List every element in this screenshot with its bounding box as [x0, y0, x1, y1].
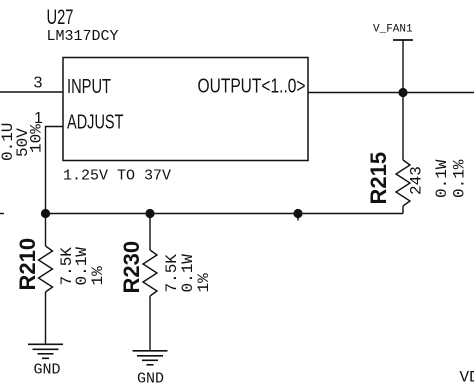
svg-text:VDD: VDD: [460, 369, 474, 387]
svg-text:243: 243: [408, 166, 426, 195]
svg-text:LM317DCY: LM317DCY: [47, 28, 119, 45]
wire: ADJUST pin 1 down to bottom rail: [46, 127, 64, 214]
svg-text:GND: GND: [137, 371, 164, 387]
svg-text:R210: R210: [15, 238, 40, 291]
svg-text:V_FAN1: V_FAN1: [373, 24, 413, 36]
svg-text:ADJUST: ADJUST: [67, 112, 124, 134]
svg-text:GND: GND: [33, 362, 60, 379]
svg-text:R230: R230: [119, 241, 144, 294]
junction: rail mid with stub: [293, 209, 302, 221]
wire: OUTPUT net to right edge: [308, 92, 474, 94]
wire: bottom ADJUST rail: [46, 213, 404, 215]
junction: rail at ADJUST / R210: [41, 209, 50, 218]
svg-text:0.1W: 0.1W: [433, 159, 451, 198]
junction: output net / V_FAN1 / R215: [398, 88, 407, 97]
svg-text:1.25V TO 37V: 1.25V TO 37V: [63, 168, 171, 185]
svg-text:INPUT: INPUT: [67, 76, 111, 98]
svg-text:0.1%: 0.1%: [451, 159, 469, 198]
svg-text:U27: U27: [47, 6, 74, 29]
svg-text:3: 3: [34, 75, 43, 92]
svg-text:10%: 10%: [27, 124, 45, 153]
resistor R210: [39, 214, 53, 345]
wire: input net into pin 3: [0, 91, 63, 93]
power symbol V_FAN1: [373, 24, 413, 41]
svg-text:1%: 1%: [195, 273, 213, 293]
ground symbol under R210: [28, 344, 63, 358]
ground symbol under R230: [133, 351, 168, 365]
wire: V_FAN1 down to output net: [402, 40, 404, 93]
regulator U27 body: [63, 58, 308, 161]
svg-text:OUTPUT<1..0>: OUTPUT<1..0>: [198, 76, 306, 98]
svg-text:1%: 1%: [89, 266, 107, 286]
junction: rail at R230: [145, 209, 154, 218]
resistor R230: [143, 214, 157, 351]
svg-text:R215: R215: [366, 152, 391, 205]
resistor R215: [396, 93, 410, 214]
wire: cropped rail stub at left edge: [0, 213, 4, 215]
